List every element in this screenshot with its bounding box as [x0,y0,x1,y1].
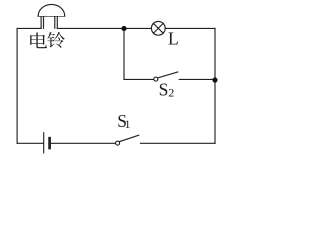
switch S1 blade [120,135,139,141]
label 电 of 电铃 [30,33,47,49]
wire S2 branch right segment [179,78,215,80]
wire S2 branch left segment [124,78,154,80]
wire top middle segment [57,27,151,29]
bell base line [38,15,65,17]
label 铃 of 电铃 [47,32,64,48]
svg-text:1: 1 [125,117,131,131]
wire S2 branch vertical [123,28,125,79]
lamp L cross stroke 1 [153,23,163,33]
wire between battery and switch S1 [51,142,115,144]
switch S1 hinge circle [116,141,120,145]
lamp L circle [151,21,165,35]
svg-text:2: 2 [168,86,174,100]
battery B1 short thick plate [48,138,51,148]
wire bottom right segment [141,142,216,144]
lamp L cross stroke 2 [153,23,163,33]
switch S2 hinge circle [154,77,158,81]
switch S2 blade [158,72,178,78]
bell left terminal leg [41,16,43,28]
wire top right segment [165,27,215,29]
bell right terminal leg [55,16,58,28]
svg-text:L: L [168,29,179,49]
junction node where S2 branch meets right wire [212,77,217,82]
junction node at lamp/S2 branch split [121,26,126,31]
wire left vertical [16,28,18,143]
wire right vertical [214,28,216,143]
battery B1 long plate [43,133,45,153]
wire bottom left segment [17,142,43,144]
wire top left segment [17,27,41,29]
bell dome [38,4,64,16]
svg-text:S: S [159,79,169,99]
